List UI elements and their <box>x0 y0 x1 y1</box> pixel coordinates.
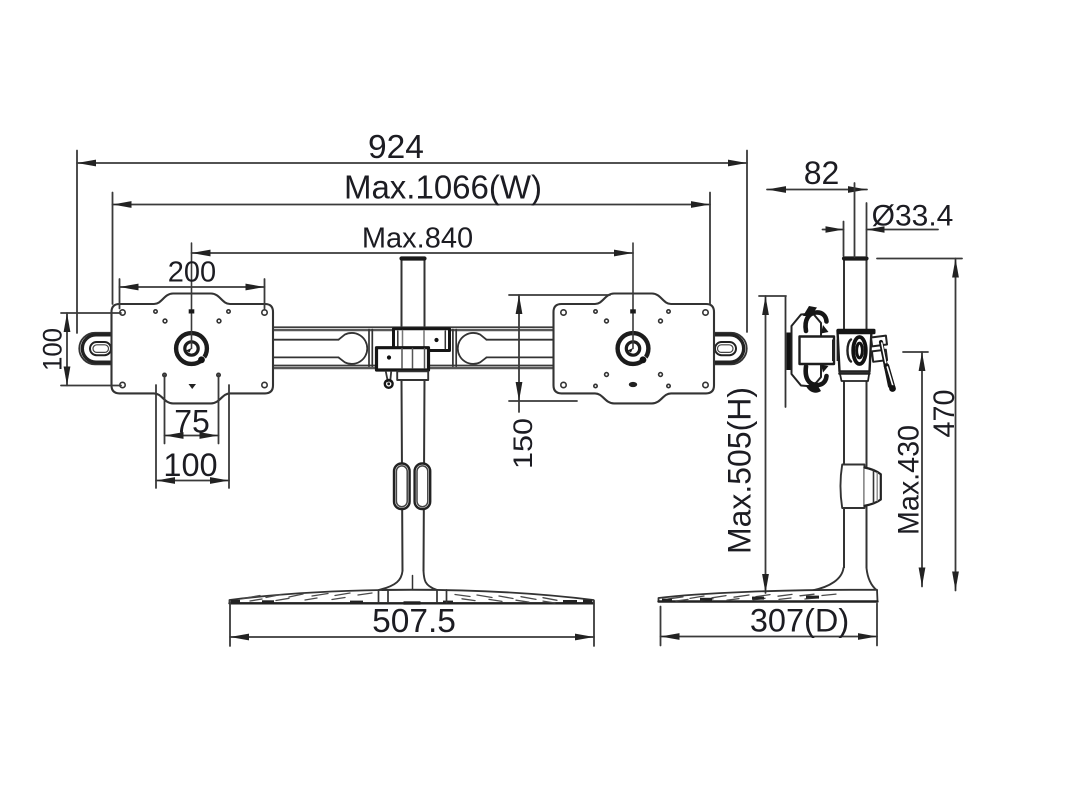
svg-text:Ø33.4: Ø33.4 <box>872 200 954 233</box>
clamp handle lever <box>386 372 391 382</box>
FRONT VIEW TEXTS <box>38 129 543 640</box>
height bracket knob <box>864 468 880 506</box>
height bracket (side) <box>841 465 865 509</box>
left plate corner holes <box>120 310 267 388</box>
dim 82 line <box>767 189 867 191</box>
pole clamp box (side) <box>838 331 872 372</box>
dim Max.840 extension lines to knob centers <box>192 243 634 349</box>
svg-text:Max.840: Max.840 <box>362 223 473 255</box>
VESA plate dark band <box>787 333 793 371</box>
SIDE VIEW <box>659 259 896 602</box>
dim 200 extension lines <box>120 279 265 309</box>
dim 924 extension lines <box>77 151 747 334</box>
left arm end edge lines <box>369 330 372 367</box>
right VESA plate <box>554 294 715 404</box>
left plate knob <box>176 333 208 364</box>
pole top cap (side) <box>844 256 867 260</box>
left plate bottom wedge mark <box>189 384 197 389</box>
dim Max.430 line <box>921 352 923 587</box>
svg-text:82: 82 <box>804 155 840 191</box>
svg-text:75: 75 <box>174 404 210 440</box>
lever rod <box>881 342 890 386</box>
pole top cap <box>402 256 425 260</box>
svg-text:200: 200 <box>168 257 216 289</box>
left VESA plate <box>112 294 274 404</box>
dim 150 line <box>518 295 520 412</box>
svg-text:924: 924 <box>368 129 424 166</box>
right arm end cap <box>714 333 747 365</box>
lever grip <box>887 366 893 387</box>
foot collar ticks <box>379 590 447 603</box>
base side dark marks <box>662 596 819 602</box>
dim Max.1066 extension lines <box>113 193 711 305</box>
right plate bottom oval mark <box>629 382 637 387</box>
base side texture <box>668 594 836 601</box>
dim 470 line <box>955 259 957 591</box>
lower claw hook <box>806 367 827 386</box>
dim 307 line <box>661 636 878 638</box>
dim dia33.4 leader line <box>867 229 939 231</box>
arm (side, end on) <box>800 337 835 365</box>
dim 75 line <box>165 435 219 437</box>
clamp collar <box>397 371 428 380</box>
center clamp upper box <box>394 329 450 351</box>
height adjuster pill left <box>394 464 410 510</box>
dim 200 line <box>120 286 265 288</box>
pole upper section <box>402 259 425 330</box>
left arm slot end lobe <box>339 333 368 364</box>
base surface texture <box>243 593 557 603</box>
dim 100 bottom extension lines <box>156 385 229 488</box>
dim 100 vertical line <box>66 313 68 386</box>
svg-text:Max.505(H): Max.505(H) <box>722 387 758 554</box>
pole foot flare <box>380 571 437 590</box>
left arm end cap <box>79 333 112 365</box>
dim Max.1066 line <box>113 204 711 206</box>
lever mid tab <box>872 350 887 362</box>
upper claw hook <box>806 312 827 331</box>
dim 507.5 extension lines <box>230 601 594 647</box>
pole (side view) <box>844 259 867 571</box>
dim 100 bottom line <box>156 480 229 482</box>
base bottom dark marks <box>231 600 592 605</box>
svg-text:Max.430: Max.430 <box>893 425 926 535</box>
dim 307 extension lines <box>661 604 878 646</box>
SIDE VIEW TEXTS <box>722 155 962 639</box>
arm bar outer lines (full width) <box>273 327 553 365</box>
svg-text:507.5: 507.5 <box>372 603 456 640</box>
VESA plate edge line (side) <box>785 297 787 407</box>
dim Max.430 extension line <box>903 351 928 353</box>
SIDE VIEW DIMENSIONS <box>661 183 963 646</box>
dim 82 extension (pole centerline) <box>854 183 856 257</box>
clamp skirt <box>840 372 870 382</box>
dim 924 line <box>77 162 747 164</box>
FRONT VIEW <box>79 259 747 605</box>
dim 150 extension lines <box>509 295 610 401</box>
height adjuster pill right <box>415 464 431 510</box>
dim Max.505 extension line <box>759 295 786 297</box>
base (side view) <box>659 590 878 602</box>
clamp knob ellipse <box>853 337 866 364</box>
right plate knob <box>618 333 650 364</box>
right arm slot end lobe <box>458 333 487 364</box>
svg-text:470: 470 <box>928 390 961 438</box>
center clamp lower box <box>377 348 429 370</box>
svg-text:Max.1066(W): Max.1066(W) <box>344 169 542 206</box>
dim Max.840 line <box>192 252 634 254</box>
pole lower section <box>402 379 425 574</box>
right arm slot <box>487 340 554 358</box>
clamp box top band <box>837 329 876 334</box>
svg-text:307(D): 307(D) <box>750 603 849 639</box>
right plate corner holes <box>561 310 708 388</box>
base (front view) <box>230 590 594 604</box>
dim Max.505 line <box>765 296 767 593</box>
arm joint stripes <box>832 340 835 362</box>
foot center line <box>412 576 414 591</box>
clamp knob arc <box>847 340 851 362</box>
dim 470 extension line <box>877 258 962 260</box>
svg-text:100: 100 <box>38 328 68 371</box>
svg-text:150: 150 <box>508 418 538 469</box>
dim 75 extension lines <box>165 375 219 444</box>
lever top tab <box>871 336 887 347</box>
dim dia33.4 extension lines <box>844 203 867 256</box>
VESA plate body (side) <box>792 314 822 387</box>
FRONT VIEW DIMENSIONS <box>61 151 747 647</box>
right arm end edge lines <box>453 330 456 367</box>
dim 100 vertical extension lines <box>61 313 121 386</box>
dim dia33.4 left arrow <box>823 229 844 231</box>
dim 507.5 line <box>230 636 594 638</box>
foot flare (side) <box>812 568 877 591</box>
left arm slot <box>273 340 339 358</box>
svg-text:100: 100 <box>163 447 217 483</box>
